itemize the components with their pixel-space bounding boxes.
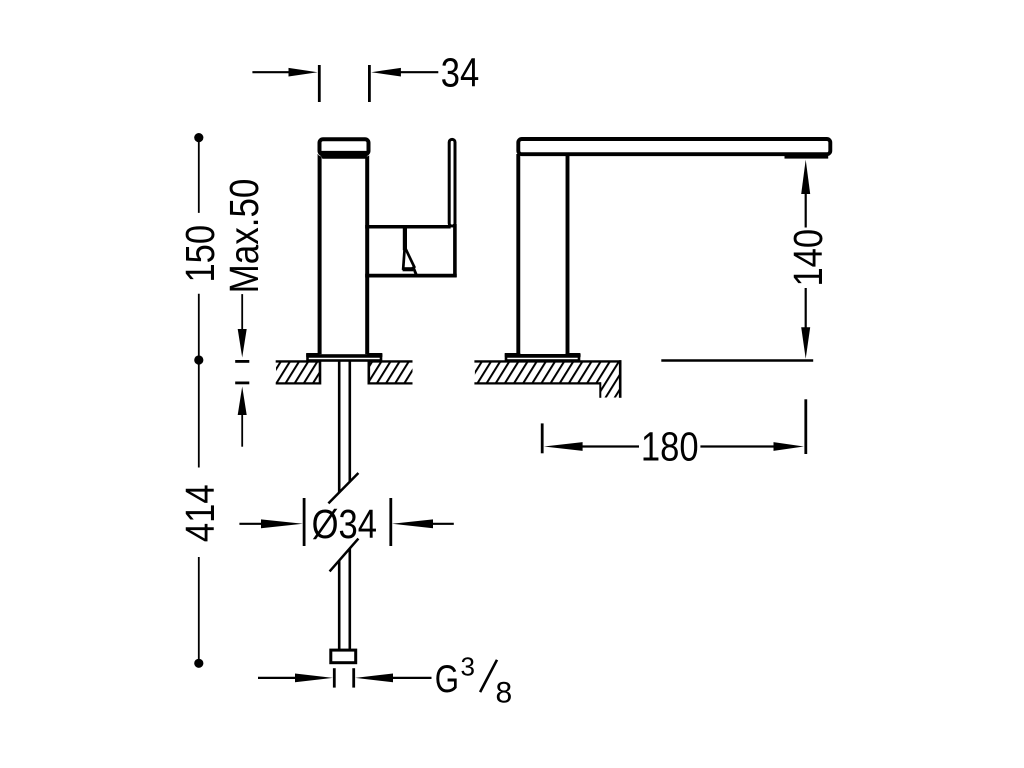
svg-text:8: 8: [496, 677, 513, 710]
svg-text:34: 34: [441, 51, 479, 96]
svg-text:414: 414: [179, 484, 224, 542]
svg-text:Max.50: Max.50: [223, 179, 268, 294]
svg-text:Ø34: Ø34: [312, 502, 377, 547]
svg-text:140: 140: [786, 229, 831, 287]
svg-text:G: G: [435, 658, 459, 701]
svg-text:180: 180: [641, 425, 699, 470]
svg-text:3: 3: [461, 651, 475, 681]
svg-text:150: 150: [179, 225, 224, 283]
